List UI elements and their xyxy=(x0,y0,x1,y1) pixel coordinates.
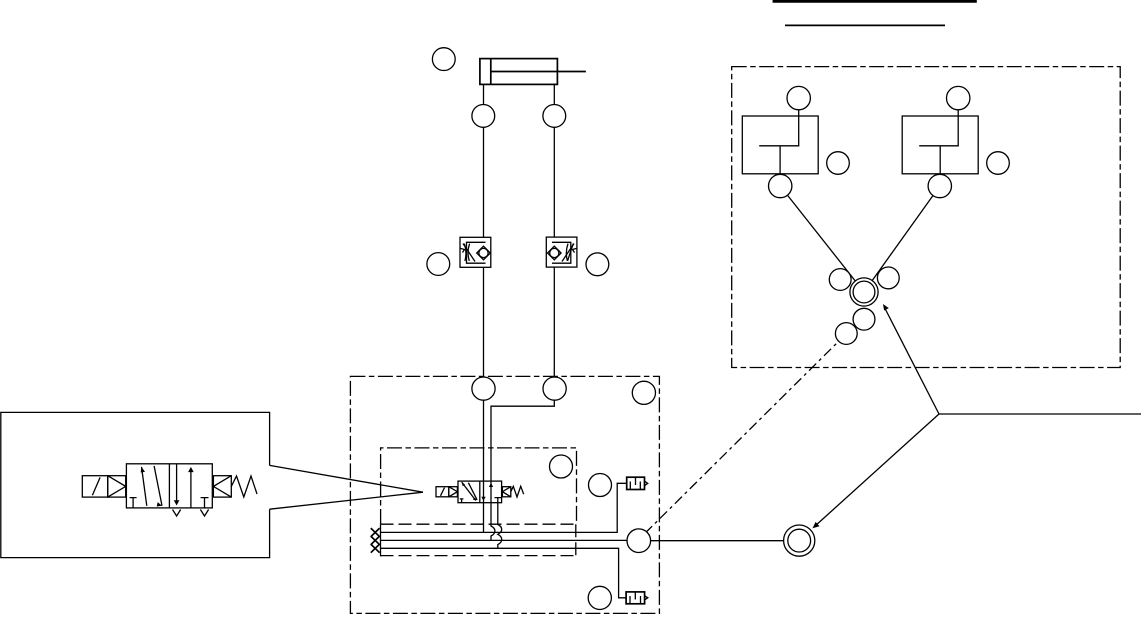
bus box left cap xyxy=(380,524,382,556)
balloon circle (cylinder) xyxy=(432,48,455,71)
plug X middle xyxy=(371,536,380,545)
gun unit left: link to junction xyxy=(780,186,864,292)
speed controller SC2 needle restrictor xyxy=(566,244,568,261)
solenoid valve SV1 return spring xyxy=(511,486,524,497)
port circle right xyxy=(543,105,566,128)
solenoid valve SV1 spring pilot triangle xyxy=(502,487,510,497)
wire cylinder right port xyxy=(553,84,555,237)
junction circle right xyxy=(877,267,899,289)
title underline thick xyxy=(773,0,977,3)
port circle left xyxy=(472,105,495,128)
speed controller SC2 outer box xyxy=(546,237,577,267)
balloon circle (gun left) xyxy=(827,152,850,175)
fitting double circle xyxy=(784,525,815,556)
bus box (dashed) xyxy=(381,524,576,556)
junction double circle xyxy=(850,278,878,306)
leader horizontal to edge xyxy=(939,413,1141,415)
junction circle below xyxy=(853,308,875,330)
callout cone bottom xyxy=(270,492,423,509)
wire valve port3 to bus xyxy=(498,503,502,549)
detail box xyxy=(1,412,270,557)
speed controller SC1 check valve diamond xyxy=(477,246,491,260)
solenoid valve SV1 pilot solenoid box xyxy=(436,487,449,497)
junction circle left xyxy=(829,269,851,291)
gun unit right top circle xyxy=(947,86,970,109)
speed controller SC1 needle restrictor xyxy=(464,244,466,261)
balloon circle (SC2) xyxy=(586,253,609,276)
valve island box (dash-dot) xyxy=(381,448,577,524)
title underline thin xyxy=(785,24,945,26)
gun unit right: link to junction xyxy=(864,186,940,292)
solenoid valve SV1 left chamber arrows xyxy=(462,482,476,500)
detail valve body xyxy=(126,464,212,508)
speed controller SC1 check valve ball xyxy=(479,248,488,257)
cylinder CYL body xyxy=(480,59,558,85)
silencer upper xyxy=(627,477,645,489)
supply port circle xyxy=(627,529,651,553)
detail valve left chamber T port xyxy=(130,498,137,508)
balloon circle (gun right) xyxy=(987,152,1010,175)
speed controller SC1 inner box xyxy=(467,242,486,263)
detail valve solenoid box xyxy=(82,476,107,497)
detail valve right chamber up arrow xyxy=(190,469,192,508)
gun unit left bottom circle xyxy=(769,174,792,197)
balloon circle (SC1) xyxy=(427,253,450,276)
detail valve left chamber arrows xyxy=(142,467,147,506)
cylinder rod xyxy=(491,71,586,73)
silencer lower xyxy=(626,592,645,604)
detail valve right chamber T port xyxy=(201,498,209,508)
detail valve right chamber down arrow xyxy=(176,464,178,503)
balloon circle (lower silencer) xyxy=(588,586,611,609)
detail valve exhaust chevron left xyxy=(173,510,181,517)
balloon circle (right of island) xyxy=(589,474,612,497)
plug X top xyxy=(371,528,380,537)
wire SC1 to manifold xyxy=(483,267,485,532)
manifold enclosure (dash-dot) xyxy=(350,376,659,613)
balloon circle (manifold top right) xyxy=(632,381,655,404)
bus line A xyxy=(381,539,628,541)
cylinder piston xyxy=(490,59,492,85)
solenoid valve SV1 body xyxy=(458,481,502,503)
solenoid valve SV1 right chamber T port xyxy=(495,498,502,503)
speed controller SC2 inner box xyxy=(552,242,571,263)
callout cone top xyxy=(270,465,423,492)
manifold port circle right xyxy=(543,377,566,400)
detail valve pilot triangle xyxy=(108,476,126,497)
wire cylinder left port xyxy=(483,84,485,237)
leader arrow to fitting xyxy=(815,414,940,527)
solenoid valve SV1 left chamber T port xyxy=(460,499,464,503)
solenoid valve SV1 pilot triangle xyxy=(449,487,458,497)
gun unit left top circle xyxy=(787,86,810,109)
gun unit right bottom circle xyxy=(928,174,951,197)
gun unit right body xyxy=(902,116,978,174)
solenoid valve SV1 right chamber up arrow xyxy=(489,483,493,487)
balloon circle (valve island) xyxy=(550,455,573,478)
gun unit left body xyxy=(742,116,818,174)
junction circle below-left xyxy=(835,323,857,345)
bus line R xyxy=(381,548,627,598)
speed controller SC1 outer box xyxy=(460,237,491,267)
detail valve return spring xyxy=(231,476,257,497)
manifold port circle left xyxy=(472,377,495,400)
plug X bottom xyxy=(371,544,380,553)
speed controller SC2 check valve diamond xyxy=(548,246,562,260)
wire SC2 to manifold (with jog) xyxy=(491,267,554,540)
leader arrow to junction xyxy=(885,308,940,415)
supply line to fitting xyxy=(651,540,784,542)
solenoid valve SV1 right chamber down arrow xyxy=(481,497,485,501)
dashed reference leader to supply circle xyxy=(647,334,846,532)
detail valve exhaust chevron right xyxy=(200,510,208,517)
speed controller SC2 check valve ball xyxy=(550,248,559,257)
station enclosure (dash-dot) xyxy=(732,67,1120,368)
detail valve spring pilot triangle xyxy=(213,476,231,497)
bus line P xyxy=(381,483,627,532)
